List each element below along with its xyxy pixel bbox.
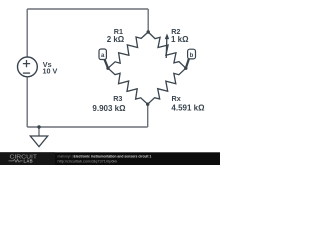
wire right drop to bridge top bbox=[147, 9, 149, 32]
wire top rail bbox=[27, 8, 148, 10]
footer bar bbox=[0, 152, 220, 165]
R2 wiper arrow head bbox=[165, 34, 169, 40]
svg-text:2 kΩ: 2 kΩ bbox=[107, 35, 125, 44]
wire Vs bottom to bottom rail bbox=[26, 77, 28, 127]
wire bridge bottom drop bbox=[147, 104, 149, 127]
node top junction dot bbox=[147, 30, 150, 33]
ground junction dot bbox=[37, 125, 40, 128]
svg-text:4.591 kΩ: 4.591 kΩ bbox=[171, 104, 205, 113]
svg-text:9.903 kΩ: 9.903 kΩ bbox=[92, 104, 126, 113]
R2 wiper arrow shaft bbox=[165, 39, 168, 58]
svg-text:b: b bbox=[190, 53, 194, 59]
voltage source Vs circle bbox=[18, 57, 38, 77]
node b flag tail bbox=[186, 59, 189, 69]
svg-text:LAB: LAB bbox=[24, 159, 34, 164]
node a dot bbox=[106, 67, 109, 70]
voltage source minus sign bbox=[23, 72, 30, 74]
node b dot bbox=[184, 67, 187, 70]
ground bbox=[30, 136, 47, 147]
svg-text:10 V: 10 V bbox=[43, 67, 58, 76]
wire ground stub bbox=[38, 127, 40, 136]
svg-text:Rx: Rx bbox=[172, 94, 181, 103]
wire bottom rail bbox=[27, 126, 148, 128]
node a flag tail bbox=[104, 59, 108, 68]
resistor R3 bbox=[108, 68, 148, 104]
node bottom junction dot bbox=[146, 103, 149, 106]
node a flag box bbox=[99, 49, 106, 60]
svg-text:1 kΩ: 1 kΩ bbox=[171, 35, 189, 44]
node b flag box bbox=[188, 49, 196, 59]
wire top-left vertical from top rail to Vs top bbox=[26, 9, 28, 57]
voltage source plus sign bbox=[23, 60, 30, 67]
svg-text:R3: R3 bbox=[113, 94, 122, 103]
footer logo backplate bbox=[0, 152, 55, 165]
svg-text:http://circuitlab.com/c8q7371r: http://circuitlab.com/c8q7371r0p6kk bbox=[58, 159, 118, 163]
resistor Rx bbox=[148, 68, 186, 104]
resistor R1 bbox=[108, 32, 148, 68]
svg-text:mahonyr |: mahonyr | bbox=[58, 154, 73, 158]
resistor R2 (variable) bbox=[148, 32, 186, 68]
footer logo wire squiggle bbox=[9, 159, 23, 162]
svg-text:Electronic instrumentation and: Electronic instrumentation and sensors c… bbox=[74, 154, 152, 158]
